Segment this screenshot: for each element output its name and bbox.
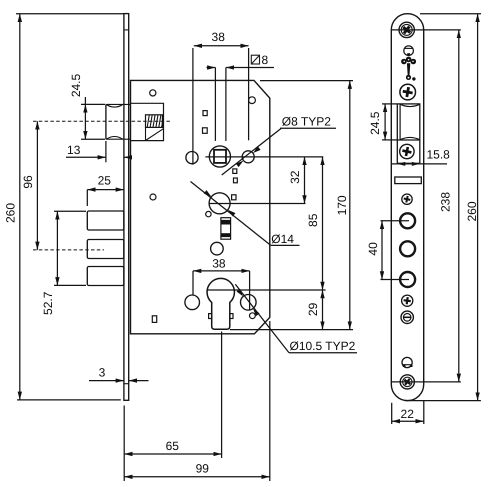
small screw outer [402, 194, 412, 204]
svg-text:24.5: 24.5 [368, 111, 382, 135]
slotted screw slot [404, 316, 411, 318]
dim sq8: right extension [225, 68, 227, 141]
faceplate strip (side view) [124, 14, 129, 401]
bolt centerline (dashed) [33, 249, 104, 251]
dim 32: dimension line [304, 157, 306, 204]
dim 52.7: dimension line [56, 211, 58, 285]
svg-text:29: 29 [306, 302, 320, 316]
latch cutout box [397, 104, 420, 163]
ring hole 3 [400, 272, 415, 287]
dim 96: dimension line [36, 121, 38, 250]
bottom screw outer [400, 375, 414, 389]
svg-text:260: 260 [465, 201, 479, 221]
deadbolt bolt 3 (side view) [87, 267, 124, 286]
ref line ring1 row [381, 220, 410, 222]
leader Ø10.5 arrowhead NW [237, 289, 244, 297]
lock case outline [131, 80, 270, 333]
mushroom mark dark bits [403, 365, 406, 367]
slotted screw inner [403, 314, 411, 322]
latch head top edge [106, 103, 131, 105]
case hole top-left [150, 90, 156, 96]
latch spring left support line [145, 127, 147, 140]
bottom screw cross [402, 377, 412, 387]
dim 3: left arrow segment [89, 380, 124, 382]
bottom screw inner [403, 377, 412, 386]
svg-text:8: 8 [262, 53, 269, 67]
follower guide hole (left circle) [186, 152, 198, 164]
dim 24.5 left: top extension [81, 103, 105, 105]
dim 24.5 right: top tick [382, 103, 397, 105]
dim 170: dimension line [349, 81, 351, 330]
leader Ø10.5 line [235, 284, 289, 353]
svg-text:13: 13 [67, 143, 81, 157]
ref line top screw row [391, 29, 461, 31]
dim sq8: left arrow segment [207, 67, 216, 69]
brand mark dark bit [407, 53, 410, 55]
screw 4 outer [402, 295, 413, 306]
latch tail bevel diagonal [146, 129, 164, 141]
dim 85: dimension line [322, 157, 324, 290]
leader Ø8 TYP2 line [222, 129, 281, 176]
svg-text:96: 96 [21, 175, 35, 189]
top screw outer [399, 22, 414, 37]
dim 260 right: dimension line [477, 14, 479, 401]
key logo bow [401, 57, 416, 81]
leader Ø10.5 underline [289, 352, 357, 354]
leader Ø14 arrowhead SE [228, 210, 236, 217]
svg-text:Ø14: Ø14 [271, 232, 294, 246]
svg-text:22: 22 [401, 407, 415, 421]
dim 65: dimension line [124, 453, 221, 455]
leader Ø14 arrowhead NW [204, 190, 212, 197]
screw 4 cross [403, 297, 411, 305]
hole Ø10.5 right [241, 295, 257, 311]
dim 65: left extension [123, 406, 125, 482]
dim 22: dimension line [392, 420, 424, 422]
brand mark circle [404, 46, 414, 56]
dim 260 left: bottom extension line [17, 399, 121, 401]
leader Ø10.5 arrowhead SE [253, 308, 260, 316]
dim 260 left: dimension line [19, 14, 21, 400]
latch head bottom edge [106, 138, 131, 140]
faceplate front outline [391, 14, 423, 401]
svg-text:24.5: 24.5 [69, 73, 83, 97]
ref line cylinder center row [207, 289, 326, 291]
svg-text:238: 238 [439, 192, 453, 212]
slider detail box [221, 218, 231, 240]
dim 38 top: right extension [248, 48, 250, 140]
dim 99: right extension [269, 321, 271, 481]
dim 238: dimension line [458, 30, 460, 382]
svg-text:99: 99 [196, 462, 210, 476]
ref line Ø14 row [209, 203, 305, 205]
ref line case top extension [260, 80, 353, 82]
svg-text:65: 65 [166, 439, 180, 453]
svg-text:85: 85 [306, 213, 320, 227]
screw 2 outer [400, 84, 416, 100]
small square hole B [203, 128, 208, 134]
hole below slider [211, 242, 224, 255]
svg-text:Ø8 TYP2: Ø8 TYP2 [282, 115, 331, 129]
small hole below Ø10.5 [250, 313, 256, 319]
small screw cross [403, 195, 411, 203]
dim 38 bottom: dimension line [193, 270, 250, 272]
label for squared-diameter 8 symbol [251, 55, 259, 64]
latch bottom concave arc [400, 137, 419, 139]
svg-text:25: 25 [98, 174, 112, 188]
slider dark band lower [221, 233, 230, 237]
latch spring coils [147, 115, 163, 128]
latch head bottom concave arc [107, 137, 123, 140]
dim 38 top: left extension through circle [192, 48, 194, 165]
ring hole 2 [400, 241, 415, 256]
leader Ø8 TYP2 arrowhead NE [253, 146, 261, 153]
svg-text:170: 170 [335, 195, 349, 215]
case hole top-right [249, 97, 256, 104]
dim 24.5 right: dimension line [384, 104, 386, 140]
dim 13: dimension line left part [66, 156, 106, 158]
faceplate strip bottom division [124, 383, 129, 385]
ref line bottom screw row [391, 381, 461, 383]
latch spring box [146, 115, 163, 128]
latch/screw divider [397, 139, 420, 141]
square spindle hole 8mm [214, 150, 226, 163]
screw 2 cross [402, 86, 414, 98]
leader Ø14 underline [271, 244, 300, 246]
dim sq8: right arrow segment [226, 67, 274, 69]
svg-text:Ø10.5 TYP2: Ø10.5 TYP2 [290, 339, 356, 353]
cylinder left tab [209, 314, 212, 319]
key logo white details [403, 59, 413, 79]
small square hole A [203, 111, 207, 116]
case hole mid-left [150, 194, 156, 200]
brand mark chord [404, 47, 413, 49]
ref line ring3 row [381, 279, 410, 281]
leader Ø8 TYP2 underline [280, 127, 336, 129]
small square hole D [234, 178, 238, 183]
svg-text:260: 260 [4, 203, 18, 223]
dim 65: right extension [221, 332, 223, 459]
hole Ø8 [242, 151, 254, 163]
dim 52.7: bottom extension [54, 284, 86, 286]
dim 15.8: dimension line [392, 163, 447, 165]
faceplate strip top division [124, 29, 129, 31]
top screw inner [401, 24, 412, 35]
dim 52.7: top extension [54, 210, 86, 212]
leader Ø14 line [191, 182, 271, 246]
dim 22: right extension [423, 401, 425, 424]
deadbolt slot [395, 177, 422, 184]
slotted screw outer [401, 311, 413, 323]
mushroom mark circle [402, 357, 412, 367]
dim 15.8: arrows [397, 162, 405, 166]
svg-text:52.7: 52.7 [41, 291, 55, 315]
slider dark band upper [221, 220, 230, 225]
RIGHT VIEW: faceplate front [391, 14, 423, 401]
ref line plate bottom [405, 400, 481, 402]
dim 13: extension line [105, 141, 107, 162]
deadbolt bolt 1 (side view) [87, 211, 124, 230]
dim 3: right arrow segment [129, 380, 149, 382]
dim 24.5 right: bottom tick [382, 139, 397, 141]
mushroom mark chord [402, 364, 412, 366]
svg-text:15.8: 15.8 [427, 148, 451, 162]
svg-text:32: 32 [288, 170, 302, 184]
top screw cross [401, 24, 413, 36]
dim 24.5 left: bottom extension [81, 138, 105, 140]
small square hole C [233, 169, 237, 174]
ref line cylinder bottom row [230, 329, 353, 331]
hole Ø14 [209, 193, 230, 214]
square spindle follower circle [209, 146, 230, 167]
screw 3 outer [400, 144, 414, 158]
latch top concave arc [400, 104, 419, 106]
latch centerline (dashed) [33, 120, 172, 122]
svg-text:38: 38 [212, 30, 226, 44]
latch inner vertical [399, 104, 401, 140]
svg-text:38: 38 [212, 257, 226, 271]
latch head front face [105, 104, 107, 139]
dim 25: extension line [86, 190, 88, 206]
dim sq8: left extension [214, 68, 216, 141]
dim 38 bottom: left extension [192, 271, 194, 295]
dim 29: dimension line [322, 290, 324, 330]
dim 38 bottom: right extension [249, 271, 251, 311]
screw 3 cross [401, 146, 412, 157]
small square hole E [232, 195, 236, 200]
svg-text:3: 3 [99, 366, 106, 380]
ref line plate top [420, 13, 481, 15]
ring hole 1 [400, 213, 415, 228]
dim 40: dimension line [381, 221, 383, 280]
cylinder right tab [230, 314, 233, 319]
ref line square row [205, 156, 323, 158]
leader Ø8 TYP2 arrowhead SW [236, 161, 244, 168]
dim 22: left extension [391, 403, 393, 424]
dim 25: dimension line [87, 189, 124, 191]
latch head top concave arc [107, 105, 123, 108]
dim 99: dimension line [124, 476, 270, 478]
deadbolt bolt 2 (side view) [87, 240, 124, 259]
small round hole G [206, 211, 211, 216]
dim 24.5 left: dimension line with stem [84, 97, 86, 104]
dim 260 left: top extension line [16, 13, 124, 15]
hole Ø10.5 left [185, 295, 200, 310]
dim 13: right arrow at plate [124, 156, 132, 158]
svg-text:40: 40 [366, 242, 380, 256]
euro cylinder profile [207, 278, 234, 329]
small square hole F [152, 316, 156, 323]
dim 38 top: dimension line [194, 45, 249, 47]
latch pocket box [131, 103, 164, 140]
